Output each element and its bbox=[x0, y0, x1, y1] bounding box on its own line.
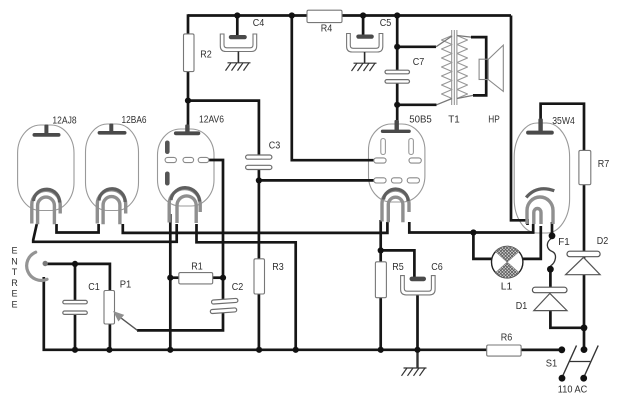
svg-text:C5: C5 bbox=[380, 17, 392, 29]
svg-text:C1: C1 bbox=[88, 281, 100, 293]
svg-text:12AV6: 12AV6 bbox=[199, 114, 224, 126]
svg-text:P1: P1 bbox=[120, 279, 132, 291]
svg-text:35W4: 35W4 bbox=[552, 115, 575, 127]
svg-text:T1: T1 bbox=[448, 114, 460, 126]
svg-text:C7: C7 bbox=[413, 56, 425, 68]
svg-text:S1: S1 bbox=[546, 358, 558, 370]
svg-text:R: R bbox=[11, 278, 18, 288]
svg-text:E: E bbox=[11, 300, 17, 310]
svg-text:R3: R3 bbox=[272, 261, 284, 273]
svg-text:C6: C6 bbox=[431, 261, 443, 273]
svg-text:R7: R7 bbox=[598, 158, 610, 170]
svg-text:E: E bbox=[11, 246, 17, 256]
svg-text:F1: F1 bbox=[558, 236, 570, 248]
svg-text:T: T bbox=[12, 267, 18, 277]
svg-text:HP: HP bbox=[488, 114, 500, 126]
svg-text:C2: C2 bbox=[232, 281, 244, 293]
svg-text:R2: R2 bbox=[200, 49, 212, 61]
svg-text:12AJ8: 12AJ8 bbox=[52, 115, 76, 127]
svg-text:E: E bbox=[11, 289, 17, 299]
svg-text:D1: D1 bbox=[516, 300, 528, 312]
svg-text:R4: R4 bbox=[321, 23, 333, 35]
svg-text:C4: C4 bbox=[253, 17, 265, 29]
svg-text:110 AC: 110 AC bbox=[558, 384, 588, 396]
svg-text:R6: R6 bbox=[501, 332, 513, 344]
svg-text:R5: R5 bbox=[392, 261, 404, 273]
svg-text:N: N bbox=[11, 256, 18, 266]
svg-text:C3: C3 bbox=[269, 140, 281, 152]
svg-text:R1: R1 bbox=[191, 261, 203, 273]
svg-text:50B5: 50B5 bbox=[409, 114, 432, 126]
svg-text:L1: L1 bbox=[501, 281, 513, 293]
svg-text:12BA6: 12BA6 bbox=[122, 114, 147, 126]
svg-text:D2: D2 bbox=[597, 235, 609, 247]
